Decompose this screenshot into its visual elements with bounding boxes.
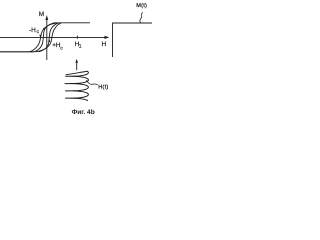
svg-text:-H: -H (29, 27, 36, 34)
svg-text:H: H (102, 41, 107, 48)
svg-text:Фиг. 4b: Фиг. 4b (72, 109, 95, 116)
svg-text:M(t): M(t) (136, 2, 147, 9)
svg-text:M: M (39, 11, 44, 18)
svg-text:1: 1 (79, 44, 82, 50)
svg-text:c: c (60, 46, 63, 52)
svg-text:c: c (37, 29, 40, 35)
svg-text:H(t): H(t) (98, 84, 108, 91)
